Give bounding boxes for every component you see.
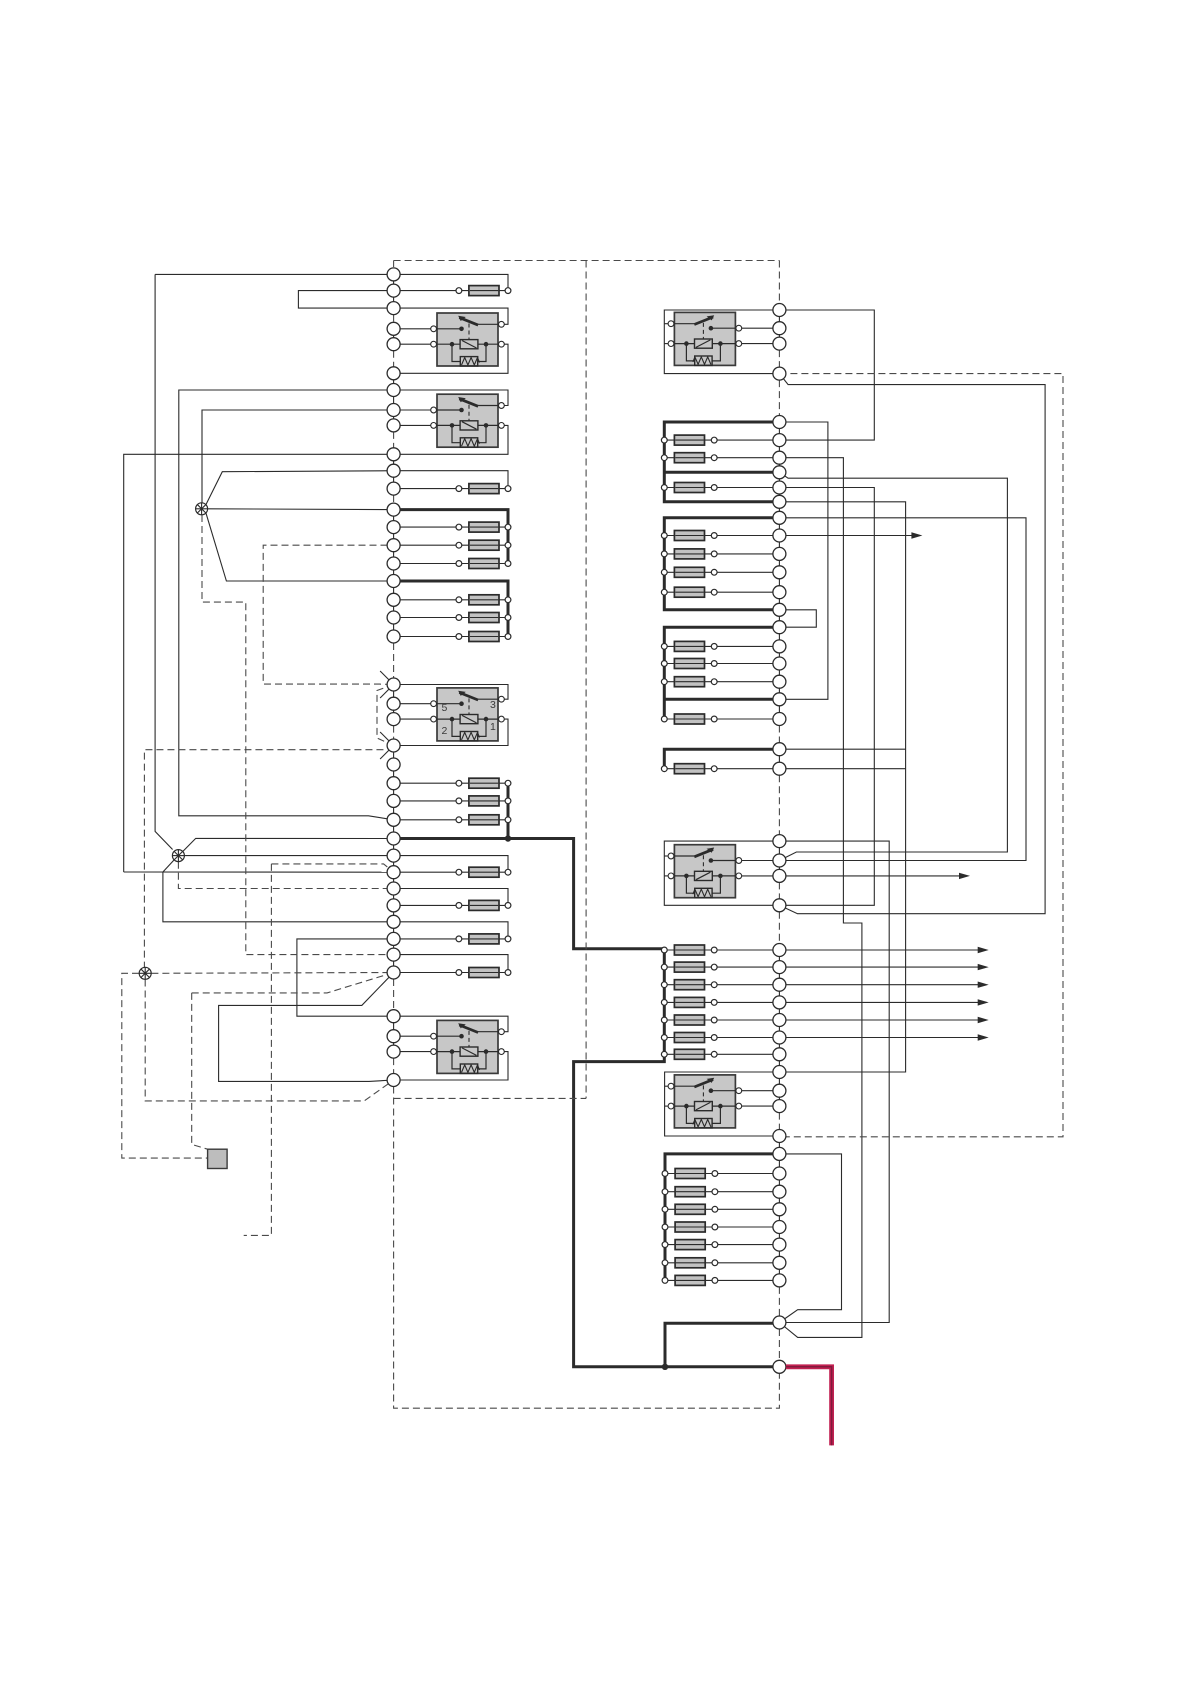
battery feed wire (red): [786, 1367, 832, 1446]
wire link right column: [778, 1192, 780, 1210]
dashed wire lamp E3 left to ground box: [122, 973, 208, 1158]
wire pin85 link: [394, 1051, 434, 1053]
fuse F2: [394, 488, 508, 490]
wire row745 loop to relay K3 pin30: [394, 719, 508, 745]
pin left y938: [387, 932, 400, 945]
wire link left column: [393, 454, 395, 470]
wire pin86 link: [394, 409, 434, 411]
wire link right column: [778, 967, 780, 985]
wire row517 to relay K6 pin87 via x1026: [779, 518, 1026, 861]
wire link right column: [778, 1245, 780, 1263]
fuse F17: [664, 457, 779, 459]
wire link right column: [778, 536, 780, 554]
wire link right column: [778, 472, 780, 487]
wire relay K6 outer loop: [664, 841, 779, 905]
wire row1153 to node A via x841.5: [779, 1154, 841, 1323]
dashed wire lamp E1 down to row954: [202, 515, 394, 955]
pin left y308: [387, 302, 400, 315]
wire link right column (dashed): [778, 350, 780, 367]
wire link right column: [778, 1263, 780, 1281]
fuse F1: [394, 290, 508, 292]
wire link right column (dashed): [778, 726, 780, 743]
wire link left column: [393, 390, 395, 410]
wire link right column: [778, 1174, 780, 1192]
pin right y681: [773, 675, 786, 688]
wire row609 U-loop row627: [779, 610, 816, 627]
pin left y703: [387, 697, 400, 710]
fuse F16: [664, 439, 779, 441]
wire link left column: [393, 581, 395, 600]
fuse F41: [665, 1279, 779, 1281]
fuse F37: [665, 1208, 779, 1210]
wire link left column: [393, 410, 395, 425]
wire row472 to relay K6 pin87a via x1007.4: [779, 472, 1007, 860]
pin left y855: [387, 849, 400, 862]
wire link right column: [778, 699, 780, 719]
wire row501 to row1072 via x905.6: [779, 502, 905, 1072]
pin left y617: [387, 611, 400, 624]
dashed right enclosure: [779, 374, 1063, 1137]
pin left y745: [387, 739, 400, 752]
pin right y1037: [773, 1031, 786, 1044]
pin left y636: [387, 630, 400, 643]
wire pin30 link right: [739, 875, 779, 877]
pin left y454: [387, 448, 400, 461]
wire row310 outer loop to relay K5 pin86: [664, 310, 779, 374]
wire link left column: [393, 685, 395, 704]
pin left y545: [387, 539, 400, 552]
ground connection box: [208, 1149, 228, 1168]
pin right y1173: [773, 1167, 786, 1180]
wire lamp E1 to row509: [208, 508, 394, 511]
wire stub relay K7 pin86: [665, 1085, 672, 1087]
wire row888 loop to fuse right: [394, 889, 508, 906]
wire stub relay K6 pin85: [664, 875, 671, 877]
dashed bottom-left enclosure: [394, 1087, 780, 1409]
pin left y783: [387, 777, 400, 790]
thick bus right block rows749-768: [664, 749, 779, 769]
wire relay K7 outer loop: [665, 1072, 780, 1136]
wire link right column: [778, 1209, 780, 1227]
pin left y872: [387, 866, 400, 879]
pin left y1036: [387, 1030, 400, 1043]
wire lamp E1 to row471: [206, 471, 394, 505]
relay K7: [673, 1075, 736, 1128]
pin right y457: [773, 451, 786, 464]
pin left y425: [387, 419, 400, 432]
pin right y609: [773, 603, 786, 616]
fuse F29: [664, 966, 779, 968]
pin left y410: [387, 404, 400, 417]
dashed wire lamp E2 down to row888: [178, 862, 393, 889]
wire row972 to row1080 loop: [219, 973, 394, 1082]
wire link left column: [393, 856, 395, 873]
wire link right column: [778, 572, 780, 592]
wire U-loop joining pin rows 291/308: [298, 291, 393, 309]
pin right y535: [773, 529, 786, 542]
fuse F5: [394, 563, 508, 565]
pin right y768: [773, 762, 786, 775]
wire row410 to lamp E1 via x203: [202, 410, 394, 503]
wire pin86 link: [394, 703, 434, 705]
wire pin85 link: [394, 343, 434, 345]
pin right y501: [773, 495, 786, 508]
wire row422 to row699 via x827.9: [779, 422, 828, 699]
wire from pin row 274 to lamp E2 via x155: [155, 273, 394, 275]
thick bus fuse group rows783-838: [507, 783, 510, 838]
pin right y875: [773, 869, 786, 882]
dashed wire lamp E3 to row972: [151, 972, 393, 975]
pin left y290: [387, 284, 400, 297]
relay K1: [436, 313, 499, 366]
wire row1016 loop to relay K4 pin87: [394, 1016, 508, 1031]
fuse F4: [394, 544, 508, 546]
wire link left column: [393, 922, 395, 939]
fuse F8: [394, 636, 508, 638]
arrow output row1020: [779, 1019, 979, 1021]
dashed wire ground box up: [192, 993, 208, 1149]
junction dot bus/fuse-drop: [505, 835, 511, 841]
wire link right column: [778, 1227, 780, 1245]
thick bus right block rows422-501: [664, 422, 779, 502]
dashed wire row745 to x144.4: [144, 746, 393, 968]
pin left y838: [387, 832, 400, 845]
pin right y1020: [773, 1014, 786, 1027]
wire pin87 link right: [739, 1090, 779, 1092]
pin right y440: [773, 434, 786, 447]
wire pin30 link right: [739, 343, 779, 345]
pin right y1153: [773, 1147, 786, 1160]
pin right y627: [773, 621, 786, 634]
wire link right column (dashed): [778, 1287, 780, 1316]
wire link left column (dashed): [393, 979, 395, 1010]
pin right y472: [773, 466, 786, 479]
main thick supply bus: [394, 839, 780, 1367]
wire link right column: [778, 488, 780, 502]
pin right y1002: [773, 996, 786, 1009]
wire row470 loop to fuse F2 right: [394, 471, 508, 489]
wire pin87 link right: [739, 860, 779, 862]
wire link right column (dashed): [778, 380, 780, 415]
pin right y1072: [773, 1066, 786, 1079]
wire link left column: [393, 765, 395, 784]
wire link right column: [778, 1091, 780, 1106]
fuse F12: [394, 871, 508, 873]
wire link right column: [778, 1154, 780, 1174]
dashed bottom edge left enclosure: [394, 1097, 586, 1099]
arrow output row1002: [779, 1001, 979, 1003]
pin left y599: [387, 593, 400, 606]
pin right y422: [773, 416, 786, 429]
thick bus fuse group rows509-563: [394, 510, 508, 564]
pin right y487: [773, 481, 786, 494]
thick bus right block rows517-609: [664, 518, 779, 610]
fuse F18: [664, 487, 779, 489]
wire link right column: [778, 610, 780, 627]
thick bus right block rows627-719: [664, 627, 779, 719]
wire link right column: [778, 310, 780, 328]
pin left y764: [387, 758, 400, 771]
pin right y967: [773, 961, 786, 974]
wire row1080 loop to relay K4 pin30: [394, 1052, 508, 1080]
wire link left column: [393, 545, 395, 563]
wire link left column: [393, 618, 395, 637]
arrow output row877: [779, 875, 961, 877]
pin left y1016: [387, 1010, 400, 1023]
wire lamp E1 to row581: [206, 513, 394, 581]
dashed box around relay K3: [263, 545, 393, 684]
fuse F15: [394, 972, 508, 974]
thick tap right row472: [664, 471, 779, 474]
pin right y572: [773, 566, 786, 579]
pin right y310: [773, 304, 786, 317]
wire link left column: [393, 527, 395, 545]
wire link right column: [778, 440, 780, 458]
wire link right column: [778, 627, 780, 646]
dashed wire ground box to row972: [192, 973, 394, 993]
pin left y719: [387, 713, 400, 726]
lamp E3: [139, 967, 151, 979]
wire link right column: [778, 861, 780, 876]
wire row841 to node A via x889.2: [779, 841, 889, 1322]
wire link right column: [778, 502, 780, 518]
fuse F21: [664, 571, 779, 573]
wire pin86 link: [394, 328, 434, 330]
wire row457 to node A via jog x843/x862: [779, 458, 862, 1338]
fuse F13: [394, 904, 508, 906]
wire link right column (dashed): [778, 882, 780, 898]
wire lamp E2 branch to row922: [163, 872, 394, 922]
wire link right column: [778, 328, 780, 343]
wire link right column: [778, 554, 780, 572]
wire link right column: [778, 682, 780, 700]
wire row373 loop to relay K1 pin30: [394, 344, 508, 373]
wire link right column: [778, 422, 780, 440]
pin left y274: [387, 268, 400, 281]
wire link left column: [393, 746, 395, 765]
arrow output row535: [779, 535, 913, 537]
wire link left column: [393, 889, 395, 906]
wire link right column: [778, 458, 780, 473]
dashed wire lamp E3 down to row1080: [145, 980, 393, 1101]
pin left y905: [387, 899, 400, 912]
relay K3: [436, 688, 499, 741]
wire link left column (dashed): [393, 726, 395, 739]
wire link left column: [393, 291, 395, 309]
wire link left column: [393, 955, 395, 973]
wire link right column: [778, 841, 780, 860]
pin right y517: [773, 511, 786, 524]
thick branch to node A: [665, 1323, 779, 1367]
wire link right column: [778, 749, 780, 769]
wire link left column (dashed): [393, 315, 395, 323]
wire link left column (dashed): [393, 432, 395, 448]
wire stub relay K7 pin85: [665, 1105, 672, 1107]
fuse F6: [394, 599, 508, 601]
wire crossing tick y684: [380, 671, 390, 681]
fuse F33: [664, 1037, 779, 1039]
pin right y1262: [773, 1256, 786, 1269]
wire row749 tap to x905.6: [779, 748, 905, 750]
fuse F27: [664, 768, 779, 770]
wire row454 to junction y872 via x123.7: [124, 454, 394, 872]
wire link left column: [393, 1036, 395, 1051]
fuse F24: [664, 663, 779, 665]
pin right y646: [773, 640, 786, 653]
wire link left column: [393, 783, 395, 801]
wire row954 loop to fuse right: [394, 955, 508, 973]
fuse F28: [664, 949, 779, 951]
fuse F38: [665, 1226, 779, 1228]
pin left y581: [387, 575, 400, 588]
wire lamp E2 to row855: [185, 855, 394, 857]
wire pin85 link: [394, 718, 434, 720]
wire row487 to row905 via x874.3: [779, 488, 874, 906]
fuse F31: [664, 1001, 779, 1003]
pin right y1136: [773, 1130, 786, 1143]
pin right y1280: [773, 1274, 786, 1287]
fuse F10: [394, 800, 508, 802]
fuse F39: [665, 1244, 779, 1246]
pin right y663: [773, 657, 786, 670]
wire pin87 link right: [739, 327, 779, 329]
wire link left column: [393, 373, 395, 390]
pin right y1322: [773, 1316, 786, 1329]
wire link right column: [778, 1038, 780, 1055]
relay K6: [673, 845, 736, 898]
wire link left column (dashed): [393, 495, 395, 503]
fuse F30: [664, 984, 779, 986]
pin right y1366: [773, 1360, 786, 1373]
dashed tick to pin row310 right: [778, 261, 780, 304]
pin right y1054: [773, 1048, 786, 1061]
wire row454 loop to relay K2 pin30: [394, 425, 508, 454]
wire link left column (dashed): [393, 643, 395, 678]
lamp E2: [172, 850, 184, 862]
fuse F22: [664, 591, 779, 593]
pin right y1227: [773, 1221, 786, 1234]
wire lamp E2 to row872 junction: [163, 860, 174, 872]
junction dot main bus x665: [662, 1364, 668, 1370]
fuse F40: [665, 1262, 779, 1264]
wire link right column: [778, 664, 780, 682]
wire link right column: [778, 1136, 780, 1154]
wire link right column (dashed): [778, 1329, 780, 1360]
pin left y684: [387, 678, 400, 691]
fuse F23: [664, 645, 779, 647]
arrow output row984: [779, 984, 979, 986]
svg-text:1: 1: [490, 721, 496, 733]
wire link right column: [778, 646, 780, 663]
pin right y984: [773, 978, 786, 991]
pin right y328: [773, 322, 786, 335]
dashed tick to pin row274: [393, 261, 395, 268]
wire link left column: [393, 939, 395, 955]
wire link left column: [393, 704, 395, 719]
lamp E1: [196, 503, 208, 515]
fuse F32: [664, 1019, 779, 1021]
wire link left column: [393, 820, 395, 839]
pin left y921: [387, 915, 400, 928]
wire stub relay K5 pin86: [664, 323, 671, 325]
pin right y905: [773, 899, 786, 912]
pin right y1209: [773, 1203, 786, 1216]
pin right y1191: [773, 1185, 786, 1198]
pin right y699: [773, 693, 786, 706]
relay K5: [673, 312, 736, 365]
pin left y509: [387, 503, 400, 516]
pin left y488: [387, 482, 400, 495]
wire link right column (dashed): [778, 775, 780, 834]
wire link left column: [393, 872, 395, 888]
pin right y749: [773, 743, 786, 756]
svg-text:2: 2: [442, 725, 448, 737]
wire link left column (dashed): [393, 351, 395, 367]
pin left y888: [387, 882, 400, 895]
relay K2: [436, 394, 499, 447]
wire link left column: [393, 1016, 395, 1036]
wire stub relay K6 pin86: [664, 855, 671, 857]
svg-text:3: 3: [490, 699, 496, 711]
wire link left column: [393, 600, 395, 618]
wire lamp E2 to row838: [183, 838, 394, 851]
pin right y343: [773, 337, 786, 350]
wire link right column: [778, 1020, 780, 1038]
wire row768 tap to x905.6: [779, 768, 905, 770]
arrow output row1037: [779, 1037, 979, 1039]
dashed enclosure top edge: [394, 260, 780, 262]
wire row373 to relay K6 pin30 via x1044.6: [779, 374, 1045, 914]
wire link left column: [393, 329, 395, 344]
pin right y592: [773, 586, 786, 599]
wire link left column: [393, 564, 395, 582]
wire link left column: [393, 510, 395, 527]
fuse F7: [394, 617, 508, 619]
pin right y1244: [773, 1238, 786, 1251]
wire link right column: [778, 592, 780, 610]
pin left y1051: [387, 1045, 400, 1058]
svg-text:5: 5: [442, 702, 448, 714]
pin right y860: [773, 854, 786, 867]
wire link right column: [778, 1002, 780, 1020]
fuse F3: [394, 526, 508, 528]
wire link left column: [393, 801, 395, 820]
wire stub relay K5 pin85: [664, 343, 671, 345]
fuse F25: [664, 681, 779, 683]
arrow output row950: [779, 949, 979, 951]
wire link right column (dashed): [778, 912, 780, 944]
relay K4: [436, 1020, 499, 1073]
wire row921 loop to fuse right: [394, 922, 508, 939]
wire row274 loop to fuse F1 right: [394, 274, 508, 290]
wire link right column: [778, 1072, 780, 1091]
pin right y373: [773, 367, 786, 380]
dashed link rows684-745: [377, 685, 394, 746]
wire row310 loop down to row440: [779, 310, 874, 440]
dashed wire row872 alt: [271, 864, 393, 872]
wire row872 long: [124, 871, 394, 873]
wire link right column: [778, 985, 780, 1003]
pin right y1106: [773, 1100, 786, 1113]
wire link left column (dashed): [393, 1058, 395, 1073]
fuse F20: [664, 553, 779, 555]
dashed mid separator x586: [585, 261, 587, 1099]
wire crossing tick y745: [380, 732, 390, 742]
wire link right column: [778, 518, 780, 536]
pin right y553: [773, 547, 786, 560]
pin left y344: [387, 338, 400, 351]
wire link right column: [778, 1054, 780, 1072]
